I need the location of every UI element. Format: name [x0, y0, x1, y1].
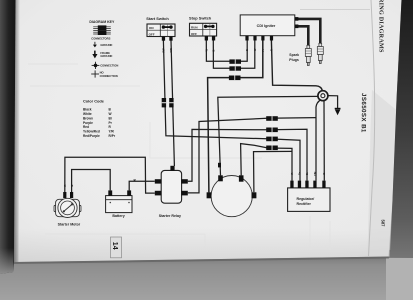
svg-text:OFF: OFF: [149, 32, 155, 36]
svg-text:587: 587: [381, 220, 386, 228]
svg-text:W: W: [109, 112, 112, 116]
svg-text:Br: Br: [298, 172, 302, 175]
svg-text:R/P: R/P: [162, 48, 166, 53]
svg-text:Red: Red: [83, 125, 89, 129]
svg-text:CDI Igniter: CDI Igniter: [257, 24, 276, 28]
svg-text:Stop Switch: Stop Switch: [189, 16, 212, 21]
svg-text:Red/Purple: Red/Purple: [83, 134, 100, 138]
svg-text:Spark: Spark: [289, 53, 299, 57]
svg-text:Y/R: Y/R: [169, 48, 173, 52]
svg-text:RUN: RUN: [191, 26, 198, 30]
svg-text:Color Code: Color Code: [83, 99, 105, 104]
svg-text:GROUND: GROUND: [100, 54, 112, 58]
svg-text:Y/R: Y/R: [109, 130, 115, 134]
svg-text:Brown: Brown: [83, 116, 93, 120]
svg-text:B: B: [212, 50, 216, 52]
svg-text:JS650SX B1: JS650SX B1: [360, 93, 367, 133]
svg-text:Purple: Purple: [83, 121, 93, 125]
svg-text:White: White: [83, 112, 92, 116]
svg-text:Pr: Pr: [261, 49, 265, 52]
svg-text:Black: Black: [83, 108, 92, 112]
svg-text:CONNECTORS: CONNECTORS: [91, 37, 110, 41]
svg-text:B: B: [322, 173, 326, 175]
svg-text:R: R: [290, 173, 294, 175]
svg-text:CONNECTION: CONNECTION: [100, 64, 118, 68]
svg-text:R: R: [63, 185, 67, 187]
svg-text:B: B: [245, 49, 249, 51]
svg-text:OFF: OFF: [191, 32, 197, 36]
svg-text:DIAGRAM KEY: DIAGRAM KEY: [89, 20, 115, 24]
svg-text:Regulator/: Regulator/: [297, 197, 315, 201]
svg-text:14: 14: [111, 242, 118, 250]
svg-text:Starter Motor: Starter Motor: [58, 222, 81, 226]
svg-text:Plugs: Plugs: [289, 58, 299, 62]
svg-text:R/Pr: R/Pr: [109, 134, 116, 138]
svg-text:Rectifier: Rectifier: [297, 202, 312, 206]
svg-text:FRAME: FRAME: [100, 51, 110, 55]
svg-text:Yellow/Red: Yellow/Red: [83, 130, 100, 134]
svg-text:Start Switch: Start Switch: [146, 16, 169, 21]
svg-text:B: B: [70, 185, 74, 187]
svg-text:Br: Br: [305, 172, 309, 175]
svg-text:R: R: [270, 49, 274, 51]
svg-text:NO: NO: [100, 71, 104, 75]
svg-text:WIRING DIAGRAMS: WIRING DIAGRAMS: [378, 0, 385, 53]
svg-text:ON: ON: [149, 26, 154, 30]
svg-text:CONNECTION: CONNECTION: [100, 74, 118, 78]
svg-text:Y/R: Y/R: [313, 172, 317, 176]
svg-text:Starter Relay: Starter Relay: [159, 214, 181, 218]
svg-text:Battery: Battery: [112, 214, 124, 218]
svg-text:GROUND: GROUND: [100, 43, 112, 47]
